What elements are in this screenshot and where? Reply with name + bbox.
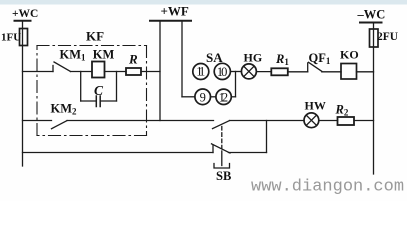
wire QF1 to KO (322, 71, 341, 73)
contact QF1 (307, 63, 309, 72)
contact KM2 (52, 121, 68, 129)
wire bottom row (23, 152, 214, 154)
contact SB normally-open (213, 121, 230, 129)
svg-text:C: C (94, 83, 104, 98)
wire capacitor branch left (80, 72, 82, 102)
svg-text:10: 10 (217, 65, 228, 79)
svg-text:KM: KM (93, 48, 115, 62)
node -WC terminal bar (360, 22, 382, 24)
fuse 1FU (20, 29, 28, 46)
svg-text:SA: SA (206, 50, 223, 65)
svg-text:12: 12 (219, 90, 229, 104)
SB actuator bracket (214, 164, 230, 169)
svg-text:SB: SB (216, 169, 231, 183)
wire KM2 row from left bus (23, 120, 52, 122)
lamp HG (241, 64, 256, 79)
coil KM (92, 62, 105, 78)
svg-text:–WC: –WC (357, 8, 386, 22)
wire HW to R2 (319, 120, 338, 122)
wire KO to right bus (357, 71, 374, 73)
wire SB NO to HW (230, 120, 305, 122)
relay KO (341, 64, 357, 80)
selector SA circle 12 (216, 89, 231, 104)
svg-text:HW: HW (305, 99, 326, 113)
wire +WF right drop (181, 22, 183, 97)
selector SA circle 11 (193, 64, 209, 80)
wire R1 to QF1 (288, 71, 308, 73)
svg-text:9: 9 (200, 90, 206, 104)
wire +WF left drop (159, 22, 161, 121)
wire SB NC to branch vertical (229, 152, 267, 154)
wire KM coil to R (105, 71, 127, 73)
svg-text:+WC: +WC (12, 8, 38, 20)
contact KM1 (52, 66, 54, 72)
svg-text:www.diangon.com: www.diangon.com (251, 178, 404, 197)
svg-text:2FU: 2FU (377, 31, 399, 43)
resistor R2 (338, 117, 355, 125)
wire 12 to riser (231, 96, 235, 98)
wire top row from left bus to KM1 (23, 71, 54, 73)
node +WF terminal bar (150, 20, 191, 22)
wire left bus vertical (22, 22, 24, 166)
lamp HW (304, 113, 319, 128)
wire capacitor bottom right (100, 100, 116, 102)
wire capacitor branch right (116, 72, 118, 102)
svg-text:KF: KF (86, 29, 104, 44)
selector SA circle 10 (214, 63, 230, 79)
fuse 2FU (370, 29, 379, 47)
wire riser 12 up to lamp row (235, 72, 237, 97)
wire capacitor bottom left (81, 100, 97, 102)
SB actuator link (221, 127, 223, 152)
node +WC terminal bar (15, 20, 31, 22)
wire link 9-12 (211, 96, 216, 98)
wire parallel branch vertical (266, 121, 268, 153)
contact SB normally-closed (212, 145, 214, 153)
wire HG to R1 (256, 71, 271, 73)
wire KM2 to SB (67, 120, 214, 122)
wire right bus vertical (373, 23, 375, 174)
svg-text:KO: KO (340, 48, 359, 62)
capacitor C plates (95, 96, 97, 107)
wire drop to circle 9 (182, 96, 195, 98)
svg-text:R: R (128, 52, 138, 67)
svg-text:1FU: 1FU (1, 32, 21, 44)
resistor R1 (271, 68, 288, 75)
resistor R (126, 68, 141, 75)
wire KM1 to KM coil (71, 71, 93, 73)
svg-text:HG: HG (244, 51, 263, 65)
box KF dash-dot frame (37, 46, 147, 136)
svg-text:11: 11 (196, 65, 205, 79)
wire R2 to right bus (354, 120, 374, 122)
wire R to +WF drop (141, 71, 160, 73)
wire 10 to HG (230, 71, 241, 73)
svg-text:+WF: +WF (161, 4, 189, 19)
selector SA circle 9 (195, 89, 211, 105)
